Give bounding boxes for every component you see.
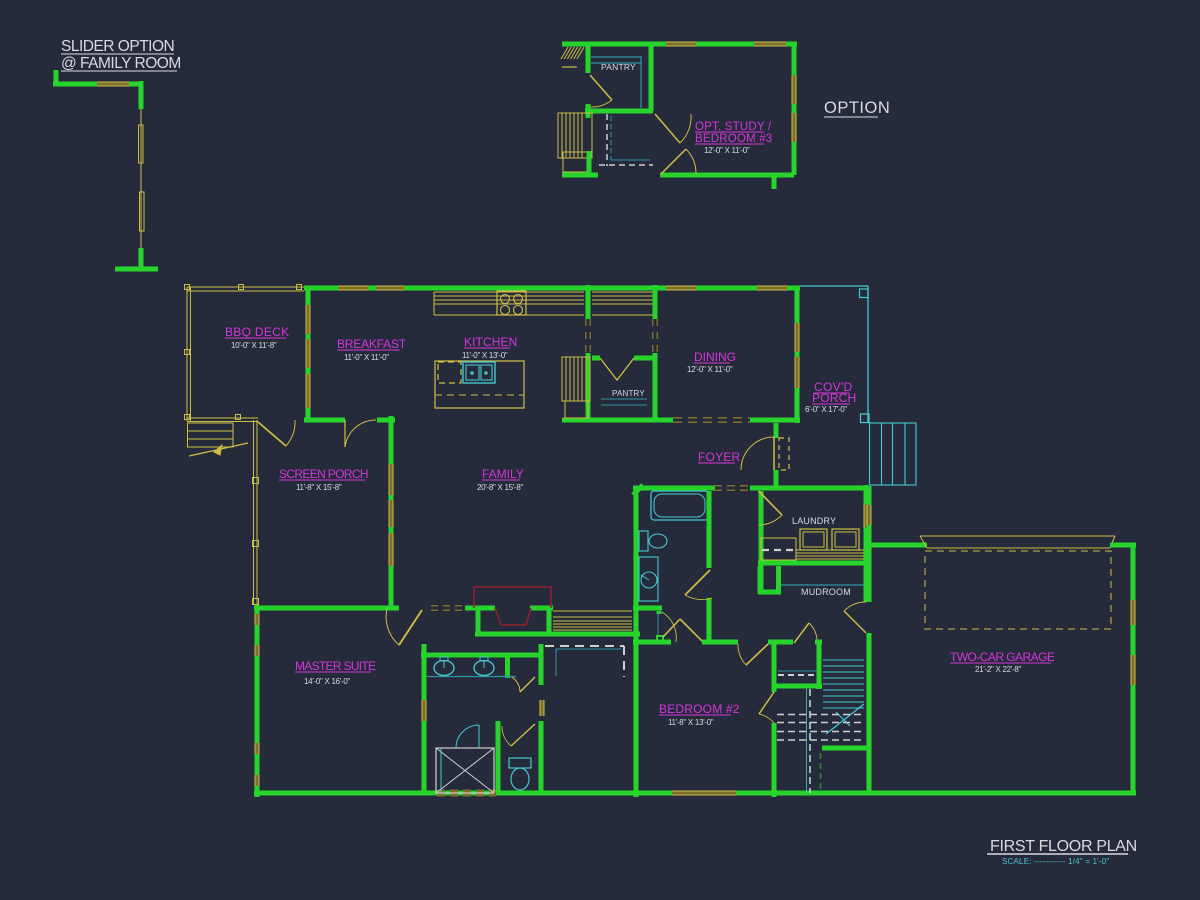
dryer [832, 529, 859, 550]
hall closet cyan [556, 648, 621, 650]
breakfast bottom wall [304, 418, 345, 423]
bbq deck door to porch [258, 422, 286, 446]
svg-text:DINING: DINING [694, 350, 736, 364]
svg-text:11'-8" X 13'-0": 11'-8" X 13'-0" [668, 718, 714, 727]
kitchen pantry wall [586, 285, 591, 319]
svg-text:12'-0" X 11'-0": 12'-0" X 11'-0" [704, 146, 750, 155]
mudroom garage door [844, 611, 866, 633]
mudroom closet box [758, 566, 763, 594]
svg-text:MASTER SUITE: MASTER SUITE [295, 659, 376, 673]
bath corner chamfer [633, 485, 643, 495]
hall closet bottom wall [776, 684, 822, 689]
option detail pantry door [590, 75, 612, 100]
svg-text:11'-8" X 15'-8": 11'-8" X 15'-8" [296, 483, 342, 492]
pantry shelves [601, 398, 647, 400]
master entry door [399, 610, 422, 645]
linen door [510, 676, 520, 692]
option detail pantry shelves [591, 56, 642, 58]
bbq deck edge bottom [187, 417, 258, 419]
front door leaf [773, 437, 775, 470]
svg-text:FIRST FLOOR PLAN: FIRST FLOOR PLAN [990, 838, 1137, 855]
dining bottom wall [652, 418, 673, 423]
fridge cabinet [562, 357, 590, 401]
mudroom bench [781, 584, 864, 586]
garage bottom wall [866, 791, 1136, 796]
foyer south wall [633, 486, 714, 491]
kitchen bottom wall [562, 418, 671, 423]
svg-text:SCALE: ----------- 1/4" = 1'-0: SCALE: ----------- 1/4" = 1'-0" [1002, 857, 1109, 866]
front door sidelite dashed [779, 438, 789, 470]
svg-text:BREAKFAST: BREAKFAST [337, 337, 407, 351]
wc pocket door [540, 700, 545, 716]
svg-text:11'-0" X 13'-0": 11'-0" X 13'-0" [462, 351, 508, 360]
linen closet top [508, 653, 539, 658]
option detail fridge cabinet [558, 113, 592, 158]
laundry base cabinet [761, 538, 796, 560]
bath closet [657, 612, 659, 636]
master left windows [255, 614, 260, 625]
screen porch posts [253, 478, 259, 484]
washer [800, 529, 827, 550]
bedroom2 entry door [746, 644, 768, 665]
svg-text:TWO-CAR GARAGE: TWO-CAR GARAGE [950, 650, 1055, 664]
hall closet shelf [778, 670, 817, 672]
under-stair vertical dash [809, 689, 811, 793]
range [497, 291, 526, 315]
laundry bottom wall [758, 561, 866, 566]
option detail bottom wall [660, 173, 794, 178]
svg-text:SLIDER OPTION: SLIDER OPTION [61, 38, 174, 55]
master top wall [254, 606, 399, 611]
bedroom2 top wall [633, 640, 671, 645]
foyer cased opening dashes [714, 485, 750, 487]
option detail mid wall [585, 109, 653, 114]
family west wall [389, 416, 394, 607]
bedroom2 right wall [772, 644, 777, 692]
front door arc [741, 437, 774, 470]
porch post bottom [861, 414, 870, 423]
pantry east wall [653, 285, 658, 319]
breakfast porch door [344, 420, 346, 447]
porch wall to garage [867, 486, 872, 548]
option detail bottom-left walls [562, 173, 598, 178]
bath closet wall [633, 606, 662, 611]
option detail right wall [792, 44, 797, 175]
linen closet right wall [539, 644, 544, 685]
fireplace chase [474, 587, 551, 608]
kitchen counter [434, 291, 584, 293]
bbq deck edge left [186, 287, 188, 421]
svg-text:PANTRY: PANTRY [612, 389, 645, 398]
svg-text:SCREEN PORCH: SCREEN PORCH [279, 467, 368, 481]
shower [436, 748, 494, 793]
svg-text:20'-8" X 15'-8": 20'-8" X 15'-8" [477, 483, 523, 492]
porch post top [860, 289, 869, 298]
slider detail window top [97, 82, 129, 87]
option detail bottom stub [772, 175, 777, 189]
wc door [511, 724, 535, 746]
bedroom2 closet door [759, 692, 774, 714]
stairs bottom wall [822, 746, 869, 751]
slider detail wall corner [139, 81, 144, 109]
pantry doors [600, 358, 634, 380]
slider detail wall top [53, 82, 143, 87]
vanity top wall [421, 653, 508, 658]
under stair green dash [820, 753, 822, 793]
wc toilet [509, 758, 531, 768]
svg-text:12'-0" X 11'-0": 12'-0" X 11'-0" [687, 365, 733, 374]
family south wall at fireplace [465, 606, 495, 611]
option detail left wall lower [586, 104, 591, 118]
garage ceiling dashed [925, 551, 1111, 629]
slider detail panel 2 [140, 192, 145, 231]
master left wall [255, 605, 260, 797]
bath tub [651, 491, 708, 520]
bedroom 2 window [672, 791, 736, 796]
bath door [685, 570, 710, 595]
linen closet left wall [505, 653, 510, 678]
bath top wall [642, 486, 715, 491]
dining right wall [795, 288, 800, 423]
porch steps [870, 423, 917, 485]
slider detail panel 1 [139, 125, 144, 163]
main top wall windows [338, 286, 368, 291]
svg-text:BEDROOM #2: BEDROOM #2 [659, 702, 740, 716]
dining cased opening dashes [673, 417, 750, 419]
bbq deck stairs [188, 423, 234, 447]
svg-text:@ FAMILY ROOM: @ FAMILY ROOM [61, 55, 181, 72]
island counter dash [435, 394, 524, 396]
option detail stair hatch [561, 47, 568, 59]
laundry dashes [762, 549, 794, 551]
garage top wall left [866, 543, 927, 548]
svg-text:PANTRY: PANTRY [601, 62, 636, 72]
svg-text:LAUNDRY: LAUNDRY [792, 516, 836, 526]
master right wall [422, 644, 427, 700]
front door stubs [774, 423, 779, 438]
stairs dashed treads [777, 714, 864, 716]
option detail top windows [666, 42, 696, 47]
pantry walls [592, 356, 600, 361]
garage top wall right [1110, 543, 1136, 548]
svg-text:KITCHEN: KITCHEN [464, 335, 517, 349]
garage right windows [1131, 600, 1136, 625]
fireplace side walls [476, 608, 481, 634]
bath toilet [639, 531, 648, 551]
screen porch left edge [253, 420, 255, 604]
main top wall [304, 286, 800, 291]
svg-text:14'-0" X 16'-0": 14'-0" X 16'-0" [304, 677, 350, 686]
slider detail wall bottom [139, 248, 144, 269]
laundry door [759, 491, 783, 515]
vanity sink 2 [474, 661, 494, 676]
hall dashed ceiling line [545, 645, 624, 647]
svg-text:11'-0" X 11'-0": 11'-0" X 11'-0" [344, 353, 389, 362]
hall closet east wall [817, 642, 822, 689]
svg-text:BBQ DECK: BBQ DECK [225, 325, 289, 339]
garage door header [920, 535, 1115, 537]
bbq deck stair arrow [189, 443, 248, 456]
family west windows [389, 464, 394, 495]
house bottom wall [254, 791, 869, 796]
bedroom2 hall chevron doors [663, 619, 680, 637]
covered porch outline [800, 285, 868, 287]
svg-text:6'-0" X 17'-0": 6'-0" X 17'-0" [805, 405, 847, 414]
bath vanity [639, 557, 658, 601]
kitchen sink [463, 362, 495, 383]
shower bottom vent dashes [437, 790, 496, 797]
svg-text:21'-2" X 22'-8": 21'-2" X 22'-8" [975, 665, 1021, 674]
attic line blue [868, 752, 871, 793]
svg-text:OPTION: OPTION [824, 99, 890, 117]
svg-text:OPT. STUDY /: OPT. STUDY / [695, 121, 772, 133]
svg-text:BEDROOM #3: BEDROOM #3 [695, 133, 772, 145]
bbq deck edge top [187, 286, 304, 288]
family south sliding door dashes [431, 605, 468, 607]
vanity sink 1 [434, 661, 454, 676]
shower door [456, 725, 479, 748]
option detail top wall [562, 42, 797, 47]
garage right wall [1131, 545, 1136, 793]
dining right window [795, 323, 800, 352]
stair shelf lines [553, 610, 632, 612]
kitchen island [435, 361, 524, 408]
svg-text:MUDROOM: MUDROOM [801, 587, 851, 597]
laundry counter lines [796, 549, 864, 551]
bath right wall [707, 491, 712, 568]
stairs top treads [823, 659, 864, 661]
option detail left wall upper [586, 44, 591, 73]
svg-text:FOYER: FOYER [698, 450, 740, 464]
laundry right wall [864, 485, 869, 504]
firebox [495, 608, 531, 625]
slider detail slider track [140, 109, 142, 248]
option detail study door [655, 114, 680, 143]
hall wall to closet [768, 640, 793, 645]
dishwasher dashed [438, 362, 461, 383]
laundry left wall [759, 491, 764, 594]
option detail entry door [661, 149, 686, 174]
svg-text:10'-0" X 11'-8": 10'-0" X 11'-8" [231, 341, 277, 350]
option detail closet dashed lines [606, 114, 608, 166]
svg-text:FAMILY: FAMILY [482, 467, 524, 481]
closet door to hall [794, 623, 809, 643]
garage shared wall [867, 548, 872, 602]
vanity counter [427, 676, 516, 678]
bedroom2 top wall east [702, 640, 738, 645]
breakfast west wall [306, 288, 311, 420]
bbq deck posts [185, 285, 190, 290]
bath left wall [634, 493, 639, 797]
hall wall below fireplace [475, 632, 640, 637]
option detail right windows [792, 75, 797, 104]
option detail pantry right wall [649, 44, 654, 111]
stairs up arrow [826, 704, 864, 734]
wc walls [496, 721, 501, 793]
closet top wall corner [815, 640, 822, 645]
